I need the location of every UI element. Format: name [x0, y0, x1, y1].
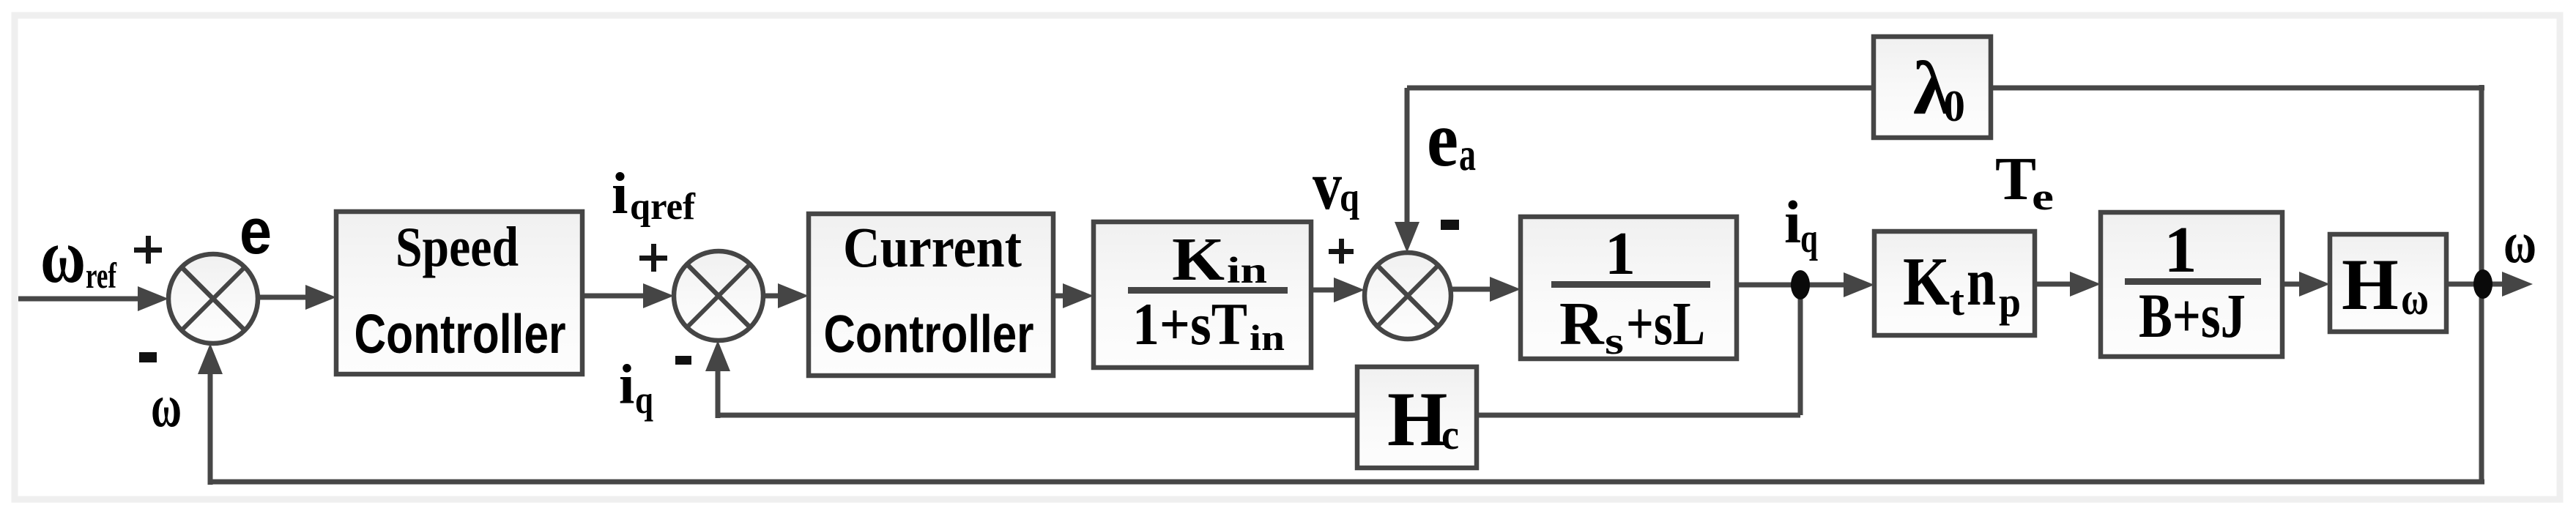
svg-text:e: e — [240, 195, 272, 267]
block: H_omega speed feedback gain — [2330, 234, 2446, 332]
svg-text:K: K — [1903, 244, 1950, 320]
label: plus sign at S1 — [134, 236, 162, 264]
wire: error e from S1 to Speed Controller with arrowhead — [258, 285, 336, 310]
svg-text:n: n — [1967, 244, 1996, 320]
wire: omega output from H_omega block with arrowhead — [2446, 272, 2533, 297]
svg-text:H: H — [1387, 376, 1447, 462]
block: Speed Controller — [336, 212, 582, 374]
label: e_a back emf — [1427, 96, 1476, 183]
svg-text:ω: ω — [2401, 272, 2429, 324]
svg-text:in: in — [1250, 317, 1285, 358]
svg-text:q: q — [1340, 175, 1359, 220]
block: lambda0 flux linkage gain — [1874, 37, 1991, 138]
svg-text:Controller: Controller — [355, 303, 566, 365]
svg-text:p: p — [1999, 278, 2021, 326]
svg-text:a: a — [1459, 128, 1476, 180]
svg-text:e: e — [2032, 176, 2054, 218]
svg-text:q: q — [1800, 216, 1818, 261]
svg-text:ω: ω — [151, 372, 182, 440]
label: T_e torque — [1995, 145, 2054, 218]
label: minus sign at S3 — [1441, 220, 1459, 230]
wire: feedback horizontal from i_q tap into Hc block — [1477, 413, 1800, 418]
svg-text:ω: ω — [2503, 211, 2536, 275]
svg-text:1+sT: 1+sT — [1132, 291, 1247, 357]
wire: e_a vertical drop into S3 with arrowhead — [1395, 88, 1419, 253]
wire: from Current Controller to Kin block with arrowhead — [1053, 283, 1094, 308]
wire: top feedback horizontal from e_a drop to lambda0 block — [1407, 86, 1876, 91]
node: i_q takeoff point — [1791, 270, 1810, 299]
summing junction S2 (current error) — [674, 251, 763, 340]
svg-text:i: i — [612, 160, 628, 226]
wire: from S2 to Current Controller with arrowhead — [763, 283, 809, 308]
svg-text:+sL: +sL — [1626, 290, 1705, 358]
svg-text:in: in — [1227, 250, 1267, 291]
svg-text:1: 1 — [1605, 220, 1636, 288]
wire: from S3 to 1/(Rs+sL) block with arrowhead — [1451, 277, 1521, 302]
svg-text:Current: Current — [843, 215, 1022, 279]
svg-text:R: R — [1559, 290, 1605, 358]
wire: v_q from Kin block to summing junction S3 with arrowhead — [1311, 278, 1365, 302]
svg-text:t: t — [1950, 277, 1965, 324]
wire: i_q from 1/(Rs+sL) block to Ktnp block with arrowhead — [1737, 272, 1874, 297]
wire: left vertical feedback up into S1 with arrowhead — [198, 343, 223, 485]
label: omega_ref input — [40, 213, 117, 299]
svg-text:qref: qref — [630, 186, 696, 228]
label: minus sign at S2 — [675, 356, 691, 365]
wire: feedback horizontal from Hc block to below S2 — [718, 413, 1357, 418]
label: v_q — [1313, 148, 1359, 224]
label: i_q at takeoff node — [1784, 188, 1818, 261]
node: omega takeoff point — [2473, 269, 2493, 299]
label: minus sign at S1 — [139, 352, 157, 362]
svg-text:i: i — [619, 353, 634, 416]
block: 1/(Rs+sL) transfer function — [1521, 217, 1737, 362]
wire: i_q tap vertical from node down to Hc feedback line — [1798, 292, 1803, 415]
wire: omega_ref input with arrowhead into summing junction S1 — [18, 286, 168, 311]
block: Hc current feedback gain — [1357, 367, 1477, 468]
block: Kt*np gain — [1874, 231, 2035, 335]
summing junction S1 (speed error) — [168, 254, 258, 343]
block: 1/(B+sJ) transfer function — [2101, 212, 2282, 357]
svg-text:c: c — [1441, 411, 1459, 458]
svg-text:e: e — [1427, 96, 1458, 183]
block: Current Controller — [809, 214, 1053, 376]
wire: top feedback horizontal from lambda0 block to right vertical — [1989, 86, 2484, 91]
svg-text:ref: ref — [86, 255, 117, 296]
label: i_q feedback at S2 — [619, 353, 653, 422]
svg-text:q: q — [635, 378, 653, 422]
svg-text:Speed: Speed — [396, 215, 519, 278]
svg-text:s: s — [1605, 321, 1624, 362]
wire: right vertical from top feedback through omega node down to bottom feedback — [2479, 85, 2484, 482]
svg-text:0: 0 — [1943, 82, 1965, 130]
label: plus sign at S3 — [1329, 239, 1354, 264]
svg-text:K: K — [1172, 226, 1225, 294]
svg-text:T: T — [1995, 145, 2036, 213]
label: i_qref — [612, 160, 696, 228]
label: plus sign at S2 — [639, 244, 667, 272]
summing junction S3 (voltage minus back-emf) — [1365, 253, 1451, 339]
svg-text:Controller: Controller — [824, 305, 1034, 364]
svg-text:1: 1 — [2164, 214, 2197, 286]
svg-text:ω: ω — [40, 213, 86, 299]
wire: i_qref from Speed Controller to summing junction S2 with arrowhead — [582, 283, 674, 308]
svg-text:i: i — [1784, 188, 1801, 256]
svg-text:H: H — [2342, 244, 2399, 325]
wire: vertical from Hc feedback line up into S2 with arrowhead — [705, 340, 730, 418]
wire: bottom outer feedback horizontal — [210, 480, 2484, 485]
svg-text:B+sJ: B+sJ — [2139, 280, 2246, 351]
block: Kin/(1+sTin) transfer function — [1094, 222, 1311, 368]
wire: T_e from Ktnp block to 1/(B+sJ) block with arrowhead — [2035, 272, 2101, 297]
svg-text:v: v — [1313, 148, 1342, 224]
wire: from 1/(B+sJ) block to H_omega block with arrowhead — [2282, 272, 2330, 297]
